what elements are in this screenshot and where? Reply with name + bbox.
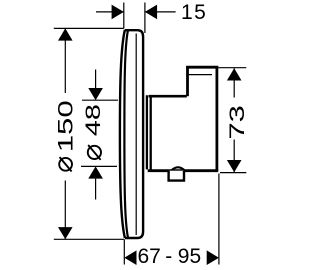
dim 150: bottom arrow	[58, 227, 73, 239]
svg-text:67: 67	[138, 245, 161, 268]
dim 67-95: right extension line	[218, 174, 220, 265]
valve body top edge	[149, 95, 187, 98]
stop ring housing left edge	[186, 66, 189, 96]
dim 73: bottom extension line	[220, 172, 246, 174]
handle adapter arc	[172, 167, 184, 170]
dim 48: upper tick	[82, 99, 118, 101]
valve body bottom edge	[148, 169, 219, 172]
dim 150: top extension line	[54, 27, 124, 29]
escutcheon plate outline (top edge, back edge, bottom edge)	[125, 30, 143, 238]
dim 48: upper leader line	[95, 70, 97, 89]
dim 48: lower tick	[81, 165, 117, 167]
stop ring housing inner line	[189, 74, 212, 76]
dim 73: top arrow (pointing up)	[227, 68, 242, 80]
dim 48: lower leader line	[95, 179, 97, 200]
dim 15: right arrow	[145, 5, 157, 20]
valve body right edge	[215, 66, 218, 171]
dim 73: dimension line upper segment	[233, 68, 235, 97]
dim 73: dimension line lower segment	[233, 140, 235, 173]
dim 67-95: left extension line	[123, 239, 125, 264]
dim 48: lower arrow (pointing up)	[88, 166, 103, 178]
dim 150: label diameter symbol	[59, 157, 72, 171]
escutcheon plate front face inner line	[124, 31, 128, 238]
dim 150: dimension line upper segment	[64, 28, 66, 93]
dim 67-95: right arrow (pointing right)	[207, 250, 219, 265]
dim 15: left extension line	[123, 3, 125, 29]
svg-text:15: 15	[181, 1, 207, 24]
dim 73: top extension line	[218, 67, 246, 69]
dim 15: right dimension line	[145, 11, 176, 13]
dim 73: bottom arrow (pointing down)	[227, 160, 242, 172]
escutcheon plate front face outer line	[120, 30, 125, 238]
svg-text:73: 73	[226, 105, 249, 140]
dim 48: upper arrow (pointing down)	[88, 88, 103, 100]
dim 15: left arrow	[112, 5, 124, 20]
svg-text:150: 150	[55, 100, 78, 152]
stop ring housing top edge	[186, 66, 218, 69]
bottom tab	[169, 171, 184, 181]
valve body flange line	[146, 95, 148, 169]
dim 48: label diameter symbol	[88, 145, 101, 160]
dim 15: right extension line	[144, 3, 146, 34]
dim 67-95: left arrow (pointing left)	[124, 250, 136, 265]
dim 15: left dimension line	[96, 11, 124, 13]
svg-text:48: 48	[82, 104, 105, 136]
svg-text:95: 95	[178, 245, 201, 268]
valve body left edge	[150, 96, 152, 169]
dim 150: dimension line lower segment	[64, 181, 66, 240]
dim 150: top arrow	[58, 28, 73, 40]
svg-text:-: -	[165, 245, 172, 268]
escutcheon plate inner contour line	[135, 34, 137, 236]
dim 150: bottom extension line	[54, 238, 124, 240]
